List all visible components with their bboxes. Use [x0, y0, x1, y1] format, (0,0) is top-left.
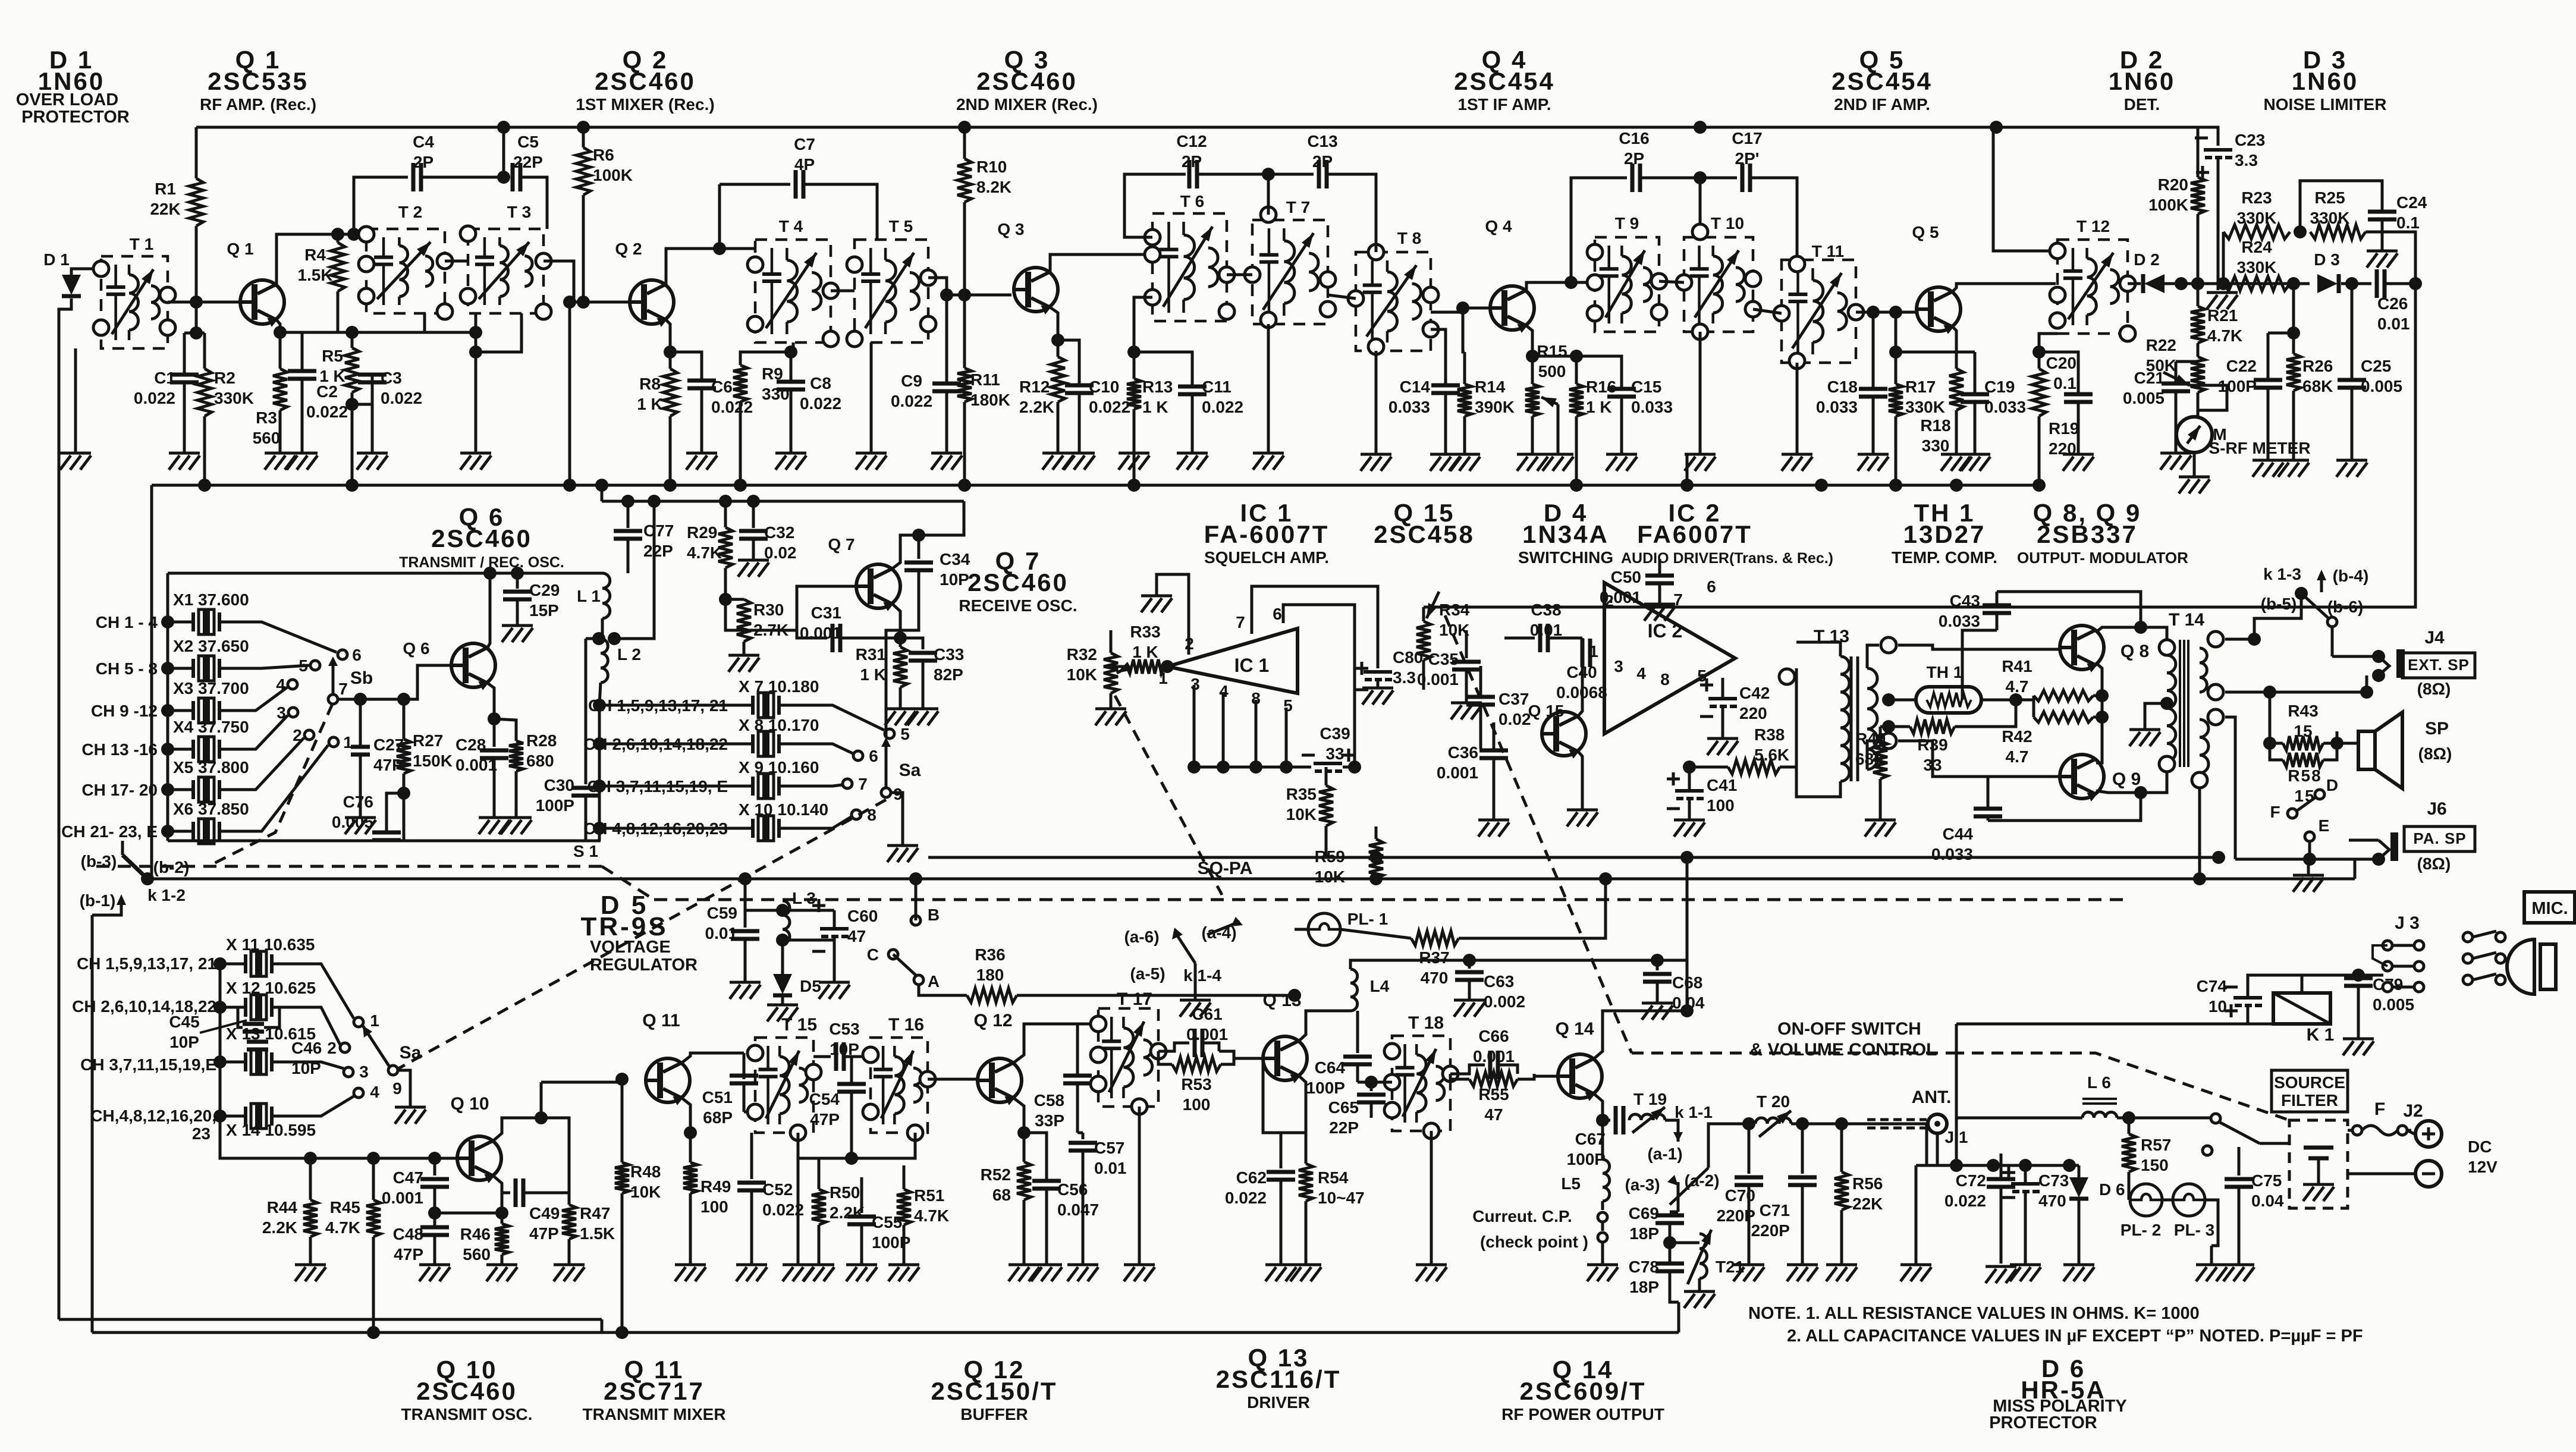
crystal X3: [168, 709, 193, 712]
svg-text:DRIVER: DRIVER: [1247, 1393, 1310, 1412]
wire PL wiring: [2205, 1200, 2218, 1246]
resistor R58: [2283, 753, 2323, 767]
resistor R29: [724, 501, 727, 527]
capacitor C49: [516, 1178, 523, 1207]
wire T19 out arrow: [1665, 1120, 1678, 1142]
resistor R36: [919, 985, 967, 995]
inductor L1: [602, 573, 610, 618]
svg-text:(a-5): (a-5): [1130, 964, 1165, 983]
crystal X13: [220, 1061, 246, 1064]
resistor R19: [2032, 369, 2046, 416]
wire C68 rail drop: [1686, 857, 1689, 960]
wire T2 T3 bottoms: [425, 313, 476, 332]
wire C16 to C17: [1640, 177, 1700, 180]
transistor Q6: [451, 643, 495, 689]
resistor R56: [1840, 1124, 1843, 1172]
antenna jack J1: [1928, 1114, 1947, 1133]
svg-text:X 8 10.170: X 8 10.170: [739, 716, 819, 734]
transformer T1: [101, 256, 168, 348]
svg-text:T 18: T 18: [1408, 1013, 1444, 1033]
svg-text:Q 8: Q 8: [2121, 642, 2149, 661]
svg-text:2: 2: [1604, 592, 1614, 610]
diode D2: [2144, 274, 2165, 293]
svg-text:TRANSMIT OSC.: TRANSMIT OSC.: [401, 1405, 533, 1423]
svg-text:8: 8: [867, 806, 877, 824]
wire L2 top right link: [614, 501, 654, 639]
resistor R55: [1469, 1072, 1518, 1086]
wire Q11 emitter: [682, 1098, 690, 1133]
svg-text:T 3: T 3: [507, 203, 531, 221]
resistor R13: [1127, 379, 1141, 409]
wire mic sw1: [2473, 931, 2496, 937]
transistor Q15: [1542, 712, 1586, 758]
wire Q6 collector: [488, 573, 490, 648]
capacitor C58: [1076, 1024, 1079, 1076]
capacitor C47: [433, 1158, 436, 1176]
wire border join: [601, 1319, 604, 1332]
resistor R59: [1369, 839, 1383, 879]
svg-text:Q 7: Q 7: [828, 535, 855, 554]
resistor R51: [897, 1189, 911, 1225]
capacitor C30: [571, 788, 600, 796]
wire bus drop to C5 node: [502, 127, 505, 177]
wire audio rail: [928, 856, 2219, 859]
capacitor C32: [752, 501, 755, 528]
wire R29 to Q7 base: [725, 586, 856, 630]
svg-text:2. ALL CAPACITANCE VALUES IN: 2. ALL CAPACITANCE VALUES IN µF EXCEPT “…: [1787, 1327, 2363, 1346]
svg-text:C: C: [867, 945, 879, 964]
svg-text:8: 8: [1660, 670, 1670, 689]
svg-text:1: 1: [1589, 642, 1598, 661]
svg-text:T 7: T 7: [1286, 198, 1310, 216]
wire top supply bus: [196, 126, 2198, 129]
wire output bottom rail: [1988, 793, 2141, 821]
svg-text:T 17: T 17: [1117, 989, 1152, 1009]
capacitor C42: [1708, 697, 1737, 700]
wire C49 out: [541, 1118, 569, 1193]
wire T14 sec mid out: [2225, 691, 2367, 694]
wire to C13: [1268, 173, 1314, 176]
wire left border: [59, 298, 71, 1319]
svg-text:1: 1: [370, 1011, 379, 1030]
resistor R18: [1949, 369, 1964, 410]
transformer T6: [1152, 213, 1227, 321]
label SOURCE FILTER: [2272, 1070, 2348, 1112]
svg-text:2SC454: 2SC454: [1832, 67, 1933, 95]
capacitor C73: [2011, 1182, 2040, 1186]
transformer T4: [755, 240, 831, 342]
wire Q3 collector: [1050, 254, 1152, 272]
capacitor C46: [247, 1042, 268, 1049]
wire C64 to T18: [1358, 1081, 1392, 1084]
wire Q7 emitter: [893, 604, 900, 638]
svg-text:1N34A: 1N34A: [1522, 520, 1609, 548]
svg-text:(b-6): (b-6): [2327, 598, 2364, 616]
svg-text:CH 1,5,9,13,17, 21: CH 1,5,9,13,17, 21: [588, 696, 728, 715]
svg-text:Q 9: Q 9: [2112, 769, 2141, 789]
svg-text:2SC460: 2SC460: [976, 67, 1077, 95]
capacitor C59: [744, 910, 747, 928]
svg-text:AUDIO DRIVER(Trans. & Rec.): AUDIO DRIVER(Trans. & Rec.): [1621, 550, 1833, 567]
wire D1 input branch: [71, 269, 101, 275]
capacitor C63: [1468, 960, 1471, 969]
svg-text:7: 7: [338, 680, 348, 698]
wire PL2 PL3: [2162, 1199, 2173, 1202]
resistor R48: [621, 1079, 624, 1162]
wire T8 out to Q4: [1431, 308, 1491, 312]
wire C3: [371, 375, 374, 404]
svg-text:7: 7: [858, 775, 868, 793]
wire T14 sec4 out: [2198, 787, 2201, 879]
capacitor C75: [2238, 1147, 2241, 1176]
switch Sa2 wiper: [388, 1066, 398, 1075]
svg-text:3: 3: [359, 1063, 369, 1081]
wire xtal bank 3 bus: [219, 964, 222, 1116]
svg-text:REGULATOR: REGULATOR: [590, 956, 698, 975]
transistor Q11: [646, 1058, 690, 1104]
transistor Q5: [1917, 287, 1961, 333]
crystal X2: [168, 667, 193, 670]
wire R55 joins: [1450, 1074, 1469, 1079]
wire oscillator box top: [168, 572, 602, 575]
wire Q14 emitter: [1594, 1094, 1603, 1120]
wire C18 R17 node: [1872, 312, 1875, 389]
wire R32 to R33: [1111, 665, 1127, 668]
wire Q8 base feed: [1898, 645, 2060, 649]
svg-text:X3 37.700: X3 37.700: [173, 679, 249, 697]
wire oscillator box bottom: [168, 840, 601, 843]
wire J1 down: [1916, 1133, 1937, 1165]
wire SQPA dashed: [92, 865, 602, 868]
capacitor C67: [1616, 1106, 1623, 1134]
transistor Q1: [240, 280, 284, 326]
wire T10 top drop: [1699, 178, 1702, 232]
wire T14 center tap: [2160, 697, 2173, 710]
svg-text:T 19: T 19: [1633, 1090, 1667, 1108]
svg-text:13D27: 13D27: [1903, 520, 1986, 548]
resistor R2: [197, 369, 212, 416]
wire C6: [670, 352, 702, 381]
wire Q2 collector: [666, 249, 755, 284]
wire B feed: [915, 879, 918, 920]
resistor R52: [1017, 1162, 1031, 1200]
crystal X8: [599, 743, 753, 746]
wire C69 T21: [1670, 1242, 1699, 1244]
thermistor TH1: [1916, 687, 1981, 713]
wire Sa2 ground: [398, 1070, 410, 1106]
wire T7 bottom: [1267, 324, 1270, 452]
wire C25: [2351, 284, 2354, 380]
capacitor C68: [1656, 960, 1659, 970]
svg-text:D: D: [2326, 776, 2338, 794]
svg-text:7: 7: [1673, 590, 1683, 609]
svg-text:Q 14: Q 14: [1555, 1019, 1594, 1039]
svg-text:A: A: [928, 972, 940, 991]
capacitor C35: [1465, 630, 1468, 658]
resistor R43: [2283, 736, 2323, 750]
wire J4 mid link: [2360, 686, 2373, 699]
svg-text:T 4: T 4: [779, 217, 803, 235]
svg-text:SP: SP: [2425, 719, 2449, 738]
wire C15: [1576, 356, 1622, 389]
transformer T3: [468, 229, 544, 313]
resistor R39: [1910, 719, 1955, 734]
IC1 triangle: [1167, 628, 1298, 693]
svg-text:SQ-PA: SQ-PA: [1198, 859, 1253, 878]
resistor R14: [1457, 384, 1472, 416]
inductor T20: [1755, 1118, 1791, 1124]
IC2 triangle: [1604, 583, 1735, 734]
wire crystal to contact wires: [219, 622, 337, 652]
inductor L5: [1601, 1120, 1604, 1159]
capacitor C1: [170, 375, 199, 382]
wire C34 down to Sa: [886, 586, 919, 737]
svg-text:OVER LOAD: OVER LOAD: [16, 90, 118, 109]
wire R10 column: [963, 127, 966, 159]
wire T15 T16 bottoms: [798, 1133, 852, 1158]
resistor R38: [1728, 760, 1780, 774]
terminal DC plus: [2407, 1130, 2414, 1134]
svg-text:6: 6: [869, 747, 878, 765]
wire FD arm: [2297, 797, 2316, 811]
svg-text:T 20: T 20: [1757, 1092, 1790, 1111]
wire C19: [1896, 351, 1975, 354]
svg-text:IC 2: IC 2: [1648, 620, 1683, 642]
capacitor C72: [1915, 1165, 1918, 1264]
svg-text:D 2: D 2: [2134, 250, 2160, 269]
capacitor C28: [493, 719, 496, 747]
svg-text:2SC116/T: 2SC116/T: [1216, 1365, 1342, 1393]
wire Q1 emitter: [277, 320, 280, 369]
resistor R33: [1127, 659, 1164, 674]
svg-text:(8Ω): (8Ω): [2417, 854, 2451, 873]
svg-text:T 5: T 5: [889, 217, 913, 235]
wire C12 loop: [1124, 174, 1186, 237]
wire mic sw3: [2473, 974, 2496, 980]
transistor Q7: [856, 564, 900, 610]
svg-text:X 14 10.595: X 14 10.595: [226, 1121, 316, 1139]
transformer T17: [1098, 1008, 1158, 1107]
capacitor C37: [1466, 697, 1495, 705]
capacitor C65: [1370, 1082, 1373, 1091]
resistor R42: [2034, 712, 2093, 722]
svg-text:(8Ω): (8Ω): [2417, 680, 2451, 698]
svg-text:(b-5): (b-5): [2261, 595, 2297, 613]
capacitor C16: [1632, 164, 1640, 192]
capacitor C29: [516, 573, 519, 589]
resistor R27: [403, 699, 406, 739]
microphone: [2524, 892, 2575, 923]
svg-text:S-RF METER: S-RF METER: [2209, 439, 2310, 457]
capacitor C8: [777, 382, 805, 389]
svg-text:TH 1: TH 1: [1927, 663, 1963, 681]
wire R39 joins: [1889, 725, 1910, 728]
svg-text:D 1: D 1: [43, 250, 70, 269]
svg-text:2SC609/T: 2SC609/T: [1519, 1377, 1646, 1405]
svg-text:6: 6: [1707, 577, 1716, 596]
capacitor C6: [687, 381, 716, 388]
wire T21 gnd: [1698, 1278, 1701, 1290]
capacitor C53: [836, 1042, 844, 1071]
resistor R25: [2310, 225, 2365, 239]
transformer T11: [1782, 260, 1856, 363]
svg-text:X 9 10.160: X 9 10.160: [739, 758, 819, 777]
wire Q10 out to Q11: [541, 1079, 622, 1082]
svg-text:OUTPUT- MODULATOR: OUTPUT- MODULATOR: [2017, 549, 2188, 567]
wire R38 to T13: [1780, 766, 1796, 769]
wire C23 branch: [2198, 127, 2218, 146]
wire Q15 emitter: [1578, 752, 1582, 809]
svg-text:X4 37.750: X4 37.750: [173, 718, 249, 736]
capacitor C77: [627, 501, 630, 528]
svg-text:3: 3: [1614, 657, 1623, 675]
wire T4 bottom bias: [791, 342, 793, 352]
wire R53 joins: [1158, 1051, 1172, 1064]
svg-text:6: 6: [352, 646, 362, 664]
wire power rail top: [1927, 1124, 2069, 1165]
switch Sa wiper: [881, 788, 891, 797]
wire R36 out: [1017, 994, 1295, 997]
lamp PL-2: [2130, 1184, 2162, 1216]
svg-text:TRANSMIT / REC. OSC.: TRANSMIT / REC. OSC.: [399, 554, 564, 571]
svg-text:(b-2): (b-2): [153, 858, 190, 876]
capacitor C13: [1319, 160, 1327, 188]
svg-text:X5 37.800: X5 37.800: [173, 758, 249, 777]
svg-text:F: F: [2270, 803, 2280, 821]
wire T20 out: [1791, 1123, 1927, 1126]
crystal X7: [599, 704, 753, 707]
wire T5 bottom drop: [870, 342, 873, 452]
wire Q9 emitter: [2096, 791, 2141, 793]
resistor R5: [345, 348, 359, 392]
svg-text:1ST IF AMP.: 1ST IF AMP.: [1457, 95, 1551, 114]
inductor L6: [2082, 1099, 2117, 1104]
wire C24 branch: [2300, 181, 2382, 232]
svg-text:(a-3): (a-3): [1625, 1176, 1660, 1194]
wire Q5 collector: [1953, 284, 2056, 291]
capacitor C64: [1356, 1011, 1359, 1053]
svg-text:PL- 3: PL- 3: [2174, 1221, 2214, 1239]
svg-text:T 1: T 1: [130, 235, 153, 253]
svg-text:D5: D5: [800, 977, 821, 995]
wire L1 to L2: [601, 618, 604, 639]
resistor R57: [2128, 1118, 2131, 1134]
capacitor C2: [288, 371, 316, 379]
svg-text:Sb: Sb: [350, 668, 373, 688]
wire C22: [2267, 333, 2270, 380]
capacitor C17: [1742, 164, 1750, 192]
svg-text:Q 1: Q 1: [227, 240, 253, 258]
svg-text:4: 4: [1636, 664, 1646, 683]
svg-text:T 8: T 8: [1397, 229, 1421, 247]
svg-text:E: E: [2319, 816, 2330, 835]
svg-text:L 6: L 6: [2087, 1073, 2111, 1092]
capacitor C9: [945, 295, 948, 384]
wire R11: [963, 295, 966, 368]
svg-text:MIC.: MIC.: [2531, 899, 2568, 918]
svg-text:1N60: 1N60: [2292, 67, 2358, 95]
svg-text:X 12 10.625: X 12 10.625: [226, 979, 316, 997]
wire T3 bottom ground: [475, 352, 477, 452]
wire T2-T3 secondary link: [445, 260, 468, 263]
wire rail left drop: [150, 485, 153, 879]
svg-text:CH 4,8,12,16,20,23: CH 4,8,12,16,20,23: [583, 819, 728, 838]
wire filter gnd: [2317, 1158, 2320, 1183]
switch ABC: [911, 916, 921, 925]
mic switch contacts: [2463, 932, 2473, 942]
crystal X9: [599, 785, 753, 788]
coax to antenna: [1867, 1120, 1927, 1128]
capacitor C19: [1961, 394, 1989, 402]
svg-text:2SC454: 2SC454: [1454, 67, 1555, 95]
wire R13: [1134, 297, 1152, 379]
dashed link R32: [1115, 696, 1222, 895]
svg-text:2SC535: 2SC535: [208, 67, 309, 95]
fuse F: [2348, 1129, 2352, 1132]
capacitor C33: [900, 638, 923, 649]
resistor R10: [957, 159, 972, 202]
wire R21: [2197, 284, 2200, 306]
wire Q10 emitter: [494, 1176, 502, 1213]
wire R16: [1575, 356, 1578, 384]
svg-text:T 15: T 15: [781, 1015, 817, 1035]
transformer T8: [1356, 252, 1431, 351]
svg-text:2SC458: 2SC458: [1374, 520, 1475, 548]
wire C45 pointer: [200, 1020, 247, 1033]
wire Q2 emitter: [666, 320, 670, 369]
wire R38 node: [1689, 766, 1728, 769]
wire mic sw2: [2473, 953, 2496, 958]
wire volume dashed: [654, 898, 2123, 901]
wire C47C48 to emitter: [435, 1212, 502, 1215]
capacitor C12: [1189, 160, 1197, 188]
svg-text:DET.: DET.: [2124, 95, 2160, 114]
wire R17: [1895, 312, 1898, 384]
wire k1-3 wiring: [2254, 593, 2301, 639]
capacitor C70: [1748, 1124, 1751, 1174]
wire bottom border: [59, 1318, 602, 1321]
svg-text:2SC460: 2SC460: [595, 67, 696, 95]
svg-text:VOLTAGE: VOLTAGE: [590, 938, 671, 957]
wire C30 column: [585, 639, 588, 784]
capacitor C4: [413, 163, 421, 191]
wire R41 R42 left join: [2032, 696, 2035, 700]
svg-text:2ND IF AMP.: 2ND IF AMP.: [1834, 95, 1930, 114]
svg-text:T 12: T 12: [2076, 217, 2110, 235]
capacitor C43: [1983, 605, 2011, 613]
wire T6-T7 link: [1227, 274, 1252, 276]
capacitor C11: [1178, 386, 1207, 394]
svg-text:T 2: T 2: [398, 203, 422, 221]
capacitor C23: [2204, 148, 2232, 152]
resistor R30: [719, 593, 732, 606]
svg-text:(b-3): (b-3): [81, 852, 117, 870]
wire IC1 bus: [1194, 766, 1311, 769]
resistor R45: [372, 1158, 375, 1200]
svg-text:PL- 1: PL- 1: [1347, 910, 1388, 928]
transistor Q13: [1263, 1036, 1307, 1082]
resistor R35: [1319, 785, 1333, 826]
wire C4 neutralizing loop: [354, 177, 408, 234]
resistor R21: [2191, 306, 2205, 343]
svg-text:Q 6: Q 6: [403, 639, 429, 658]
svg-text:2ND MIXER (Rec.): 2ND MIXER (Rec.): [956, 95, 1098, 114]
wire T10-T11 link: [1753, 309, 1782, 313]
svg-text:RF AMP. (Rec.): RF AMP. (Rec.): [200, 95, 316, 114]
wire C16 loop: [1571, 178, 1627, 282]
svg-text:6: 6: [1273, 605, 1282, 623]
resistor R23: [2223, 225, 2290, 239]
